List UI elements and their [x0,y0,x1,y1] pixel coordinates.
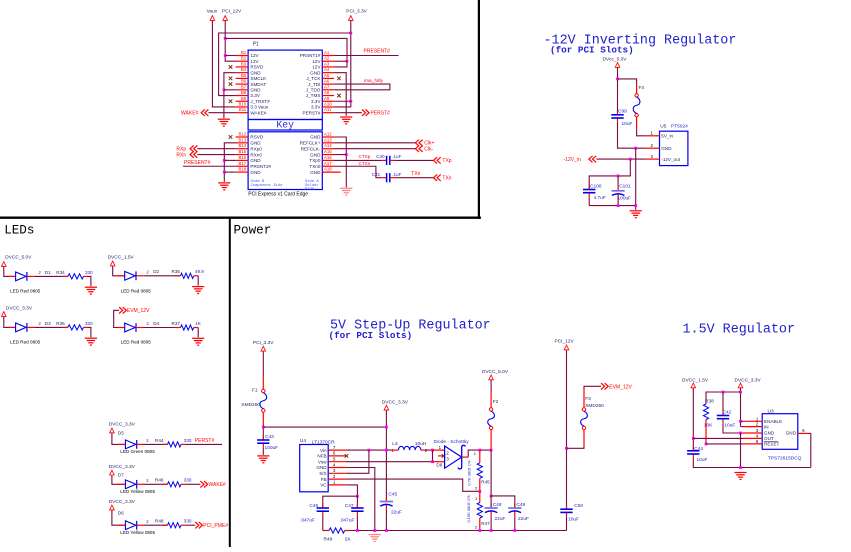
svg-text:4.7uF: 4.7uF [594,195,606,201]
svg-text:DVcc_5.0V: DVcc_5.0V [603,57,628,63]
svg-text:J_TDO: J_TDO [306,88,321,93]
svg-text:RSVD: RSVD [250,65,263,70]
svg-text:GND: GND [786,431,797,436]
svg-text:TXn: TXn [411,171,420,177]
svg-text:R44: R44 [155,438,164,443]
svg-text:A6: A6 [324,79,330,84]
svg-text:WAKE#: WAKE# [250,110,266,115]
svg-text:A4: A4 [324,67,330,72]
svg-text:DVCC_5.0V: DVCC_5.0V [5,255,32,261]
svg-text:RXp0: RXp0 [250,146,262,151]
svg-text:D6: D6 [118,511,124,516]
svg-text:PERST#: PERST# [371,111,391,117]
svg-text:GND: GND [310,70,321,75]
svg-text:Key: Key [276,119,294,130]
svg-text:D7: D7 [118,473,124,478]
svg-text:DVCC_1.5V: DVCC_1.5V [682,377,709,383]
svg-text:10uF: 10uF [622,121,633,127]
svg-text:DVCC_3.3V: DVCC_3.3V [109,499,136,505]
svg-text:R38: R38 [705,398,714,404]
svg-text:Vsw: Vsw [318,459,327,464]
svg-text:GND: GND [661,146,672,151]
svg-text:.1uF: .1uF [392,172,401,177]
svg-text:C49: C49 [516,502,525,508]
svg-text:B5: B5 [241,73,247,78]
svg-text:.047uF: .047uF [300,517,315,523]
svg-text:B4: B4 [241,67,247,72]
svg-text:GND: GND [316,465,327,470]
svg-text:3.3 Vaux: 3.3 Vaux [250,105,268,110]
svg-text:12V: 12V [250,53,259,58]
svg-text:DVCC_3.3V: DVCC_3.3V [109,422,136,428]
svg-text:A15: A15 [324,149,332,154]
svg-text:B15: B15 [239,149,247,154]
svg-text:LED Yellow 0805: LED Yellow 0805 [120,530,155,535]
svg-text:NFB: NFB [317,454,326,459]
svg-text:10uH: 10uH [415,441,427,447]
svg-text:DVCC_1.5V: DVCC_1.5V [108,255,135,261]
svg-text:R45: R45 [481,479,490,484]
svg-text:A11: A11 [324,107,332,112]
svg-text:A3: A3 [324,61,330,66]
svg-text:TXp0: TXp0 [309,158,320,163]
svg-text:FB: FB [321,477,327,482]
svg-text:-12V_out: -12V_out [661,157,680,162]
svg-text:C46: C46 [309,503,318,509]
svg-text:GND: GND [250,158,261,163]
svg-text:10K: 10K [704,423,713,429]
svg-text:12V: 12V [312,65,321,70]
svg-text:B11: B11 [239,107,247,112]
svg-text:B8: B8 [241,90,247,95]
svg-text:1K: 1K [195,321,202,326]
svg-text:U4: U4 [300,438,306,444]
svg-text:B1: B1 [241,50,247,55]
svg-text:A12: A12 [324,132,332,137]
svg-text:B13: B13 [239,137,247,142]
svg-text:B6: B6 [241,79,247,84]
svg-text:R49: R49 [324,537,333,543]
svg-text:LEDs: LEDs [4,224,34,238]
svg-text:LED Red 0805: LED Red 0805 [121,289,152,294]
svg-text:SMD250: SMD250 [585,403,604,409]
svg-text:SMDAT: SMDAT [250,82,266,87]
svg-text:R36: R36 [56,321,65,326]
svg-text:U5: U5 [660,123,666,129]
svg-text:Vaux: Vaux [207,8,218,14]
svg-text:CTXn: CTXn [359,161,371,166]
svg-text:GND: GND [310,170,321,175]
svg-text:A14: A14 [324,143,332,148]
svg-text:330: 330 [85,321,93,326]
svg-text:J_TDI: J_TDI [308,82,320,87]
svg-text:F3: F3 [585,396,591,402]
svg-text:GND: GND [250,88,261,93]
svg-text:A16: A16 [324,155,332,160]
svg-text:C42: C42 [723,410,732,416]
svg-text:GND: GND [310,152,321,157]
svg-text:22uF: 22uF [391,510,402,516]
svg-text:A5: A5 [324,73,330,78]
svg-text:B16: B16 [239,155,247,160]
svg-text:RXn: RXn [176,152,186,158]
svg-text:22uF: 22uF [518,516,529,522]
svg-text:Clk-: Clk- [424,146,433,152]
svg-text:F2: F2 [493,399,499,405]
svg-text:PCI_12V: PCI_12V [222,8,242,14]
svg-text:3.3V: 3.3V [250,93,260,98]
svg-text:PCI_3.3V: PCI_3.3V [346,8,367,14]
svg-text:A1: A1 [324,50,330,55]
svg-text:ENABLE: ENABLE [764,419,782,424]
svg-text:22uF: 22uF [495,516,506,522]
svg-text:D3: D3 [45,321,51,326]
svg-text:C47: C47 [345,503,354,509]
svg-text:PCI_12V: PCI_12V [555,338,575,344]
svg-text:RSVD: RSVD [250,135,263,140]
svg-text:12V: 12V [250,59,259,64]
svg-text:REFCLK-: REFCLK- [301,146,321,151]
svg-text:PCI_3.3V: PCI_3.3V [253,340,274,346]
svg-text:A9: A9 [324,96,330,101]
svg-text:VC: VC [320,483,327,488]
svg-text:F1: F1 [252,388,258,394]
svg-text:2K: 2K [345,537,352,543]
svg-text:A18: A18 [324,167,332,172]
svg-text:P1: P1 [253,41,259,47]
svg-text:R47: R47 [481,521,490,526]
svg-text:LT1370CR: LT1370CR [312,439,335,445]
svg-text:LED Red 0805: LED Red 0805 [10,340,41,345]
svg-text:PRSNT1#: PRSNT1# [300,53,321,58]
svg-text:CTXp: CTXp [359,154,371,159]
svg-text:330: 330 [184,478,192,483]
svg-text:-12V_in: -12V_in [564,157,581,163]
svg-text:100uF: 100uF [618,195,632,201]
svg-text:D4: D4 [153,321,159,326]
svg-text:C48: C48 [493,502,502,508]
svg-text:10uF: 10uF [697,457,708,463]
svg-text:PRSNT2#: PRSNT2# [250,164,271,169]
svg-text:330: 330 [184,519,192,524]
svg-text:TXp: TXp [442,158,451,164]
svg-text:TPS72615DCQ: TPS72615DCQ [768,455,802,461]
svg-text:C41: C41 [372,172,381,177]
svg-text:B10: B10 [239,101,247,106]
svg-text:.047uF: .047uF [340,517,355,523]
svg-text:GND: GND [250,141,261,146]
svg-text:C40: C40 [376,154,385,159]
svg-text:B18: B18 [239,167,247,172]
svg-text:330: 330 [184,438,192,443]
svg-text:LED Red 0805: LED Red 0805 [10,289,41,294]
svg-text:(for PCI Slots): (for PCI Slots) [550,44,634,55]
svg-text:D2: D2 [153,269,159,274]
svg-text:10uF: 10uF [724,423,735,429]
svg-text:PERST#: PERST# [195,438,215,444]
svg-text:100uF: 100uF [265,445,279,451]
svg-text:DVCC_3.3V: DVCC_3.3V [382,399,409,405]
svg-text:(for PCI Slots): (for PCI Slots) [329,330,413,341]
svg-text:PERST#: PERST# [303,110,321,115]
svg-text:B7: B7 [241,84,247,89]
svg-text:RXn0: RXn0 [250,152,262,157]
svg-text:LED Green 0805: LED Green 0805 [120,449,155,454]
svg-text:B3: B3 [241,61,247,66]
svg-text:C99: C99 [618,109,627,115]
svg-text:0.7K 0805 1%: 0.7K 0805 1% [467,460,472,486]
svg-text:R48: R48 [155,519,164,524]
svg-text:DVCC_3.3V: DVCC_3.3V [6,305,33,311]
svg-text:C44: C44 [694,446,703,452]
svg-text:DVCC_3.3V: DVCC_3.3V [735,377,762,383]
svg-text:D8: D8 [436,462,442,467]
svg-text:Vin: Vin [320,448,327,453]
svg-text:A7: A7 [324,84,330,89]
svg-text:B2: B2 [241,56,247,61]
svg-text:PRESENT#: PRESENT# [184,160,211,166]
svg-text:R34: R34 [56,270,65,275]
svg-text:C100: C100 [590,184,602,190]
svg-text:A17: A17 [324,161,332,166]
svg-text:12V: 12V [312,59,321,64]
svg-text:SMCLK: SMCLK [250,76,267,81]
svg-text:A8: A8 [324,90,330,95]
svg-text:GND: GND [764,431,775,436]
svg-text:A2: A2 [324,56,330,61]
svg-text:B14: B14 [239,143,247,148]
svg-text:WAKE#: WAKE# [209,482,227,488]
svg-text:IN: IN [764,424,769,429]
svg-text:J_TRST#: J_TRST# [250,99,270,104]
svg-text:PRESENT#: PRESENT# [364,49,391,55]
svg-text:R37: R37 [172,321,181,326]
svg-text:REFCLK+: REFCLK+ [300,141,321,146]
svg-text:J_TMS: J_TMS [306,93,321,98]
svg-text:L3: L3 [392,441,398,447]
svg-text:TXn: TXn [442,175,451,181]
svg-text:SMD250: SMD250 [241,402,260,408]
svg-text:D5: D5 [118,430,124,435]
svg-text:RESET: RESET [764,442,780,447]
svg-text:TXn0: TXn0 [309,164,320,169]
svg-text:F4: F4 [639,85,645,91]
svg-text:3.3V: 3.3V [311,105,321,110]
svg-text:A10: A10 [324,101,332,106]
svg-text:Component Side: Component Side [251,183,284,188]
svg-text:C50: C50 [574,503,583,509]
svg-text:PT5024: PT5024 [671,124,688,130]
svg-text:.1uF: .1uF [392,154,401,159]
svg-text:PCI_PME#: PCI_PME# [203,523,228,529]
svg-text:Power: Power [234,224,272,238]
svg-text:EVM_12V: EVM_12V [609,384,632,390]
svg-text:B17: B17 [239,161,247,166]
svg-text:A13: A13 [324,137,332,142]
svg-text:B12: B12 [239,132,247,137]
svg-text:GND: GND [250,170,261,175]
svg-text:PCI Express x1 Card Edge: PCI Express x1 Card Edge [248,191,308,197]
svg-text:C43: C43 [265,434,274,440]
svg-text:330: 330 [85,270,93,275]
svg-text:1.5V Regulator: 1.5V Regulator [683,323,796,338]
svg-text:EVM_12V: EVM_12V [127,308,150,314]
svg-text:0.19K 0805 1%: 0.19K 0805 1% [466,495,471,523]
svg-text:GND: GND [250,70,261,75]
svg-text:LED Yellow 0805: LED Yellow 0805 [120,489,155,494]
svg-text:OUT: OUT [764,436,774,441]
svg-text:GND: GND [310,135,321,140]
svg-text:R46: R46 [155,478,164,483]
svg-text:LED Red 0805: LED Red 0805 [121,340,152,345]
svg-text:10uF: 10uF [568,516,579,522]
svg-text:B9: B9 [241,96,247,101]
svg-text:D1: D1 [45,270,51,275]
svg-text:DVCC_3.3V: DVCC_3.3V [109,464,136,470]
svg-text:5V_in: 5V_in [661,134,673,139]
svg-text:U3: U3 [768,409,774,415]
svg-text:WAKE#: WAKE# [181,110,199,116]
svg-text:49.9: 49.9 [195,269,204,274]
svg-text:C101: C101 [619,184,631,190]
svg-text:DVCC_5.0V: DVCC_5.0V [482,369,509,375]
svg-text:ima_folly: ima_folly [364,78,384,84]
svg-text:S/S: S/S [319,471,326,476]
svg-text:R35: R35 [172,269,181,274]
svg-text:3.3V: 3.3V [311,99,321,104]
svg-text:C45: C45 [388,492,397,498]
svg-text:J_TCK: J_TCK [306,76,321,81]
